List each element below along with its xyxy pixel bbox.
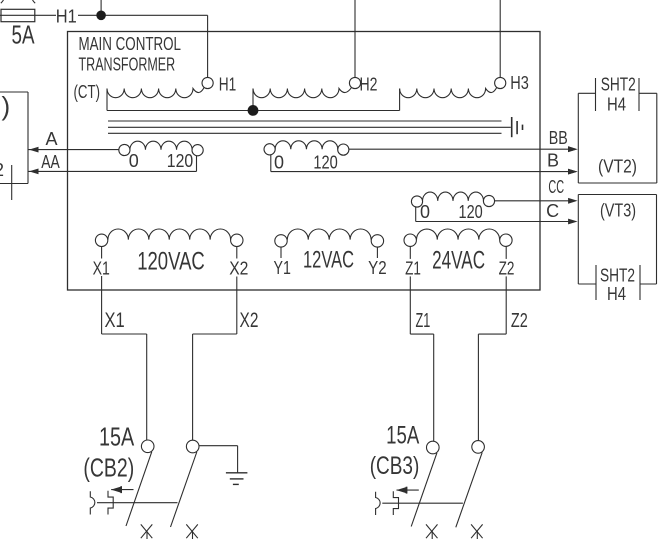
- svg-text:X1: X1: [93, 259, 110, 279]
- svg-text:H4: H4: [607, 284, 626, 304]
- svg-text:H1: H1: [56, 6, 77, 26]
- svg-text:(VT3): (VT3): [600, 201, 636, 221]
- svg-text:X1: X1: [105, 309, 125, 332]
- svg-text:0: 0: [420, 202, 430, 222]
- svg-text:120: 120: [167, 151, 193, 171]
- svg-text:120: 120: [459, 202, 483, 222]
- svg-text:B: B: [547, 150, 559, 170]
- svg-text:15A: 15A: [99, 422, 135, 452]
- svg-text:(CT): (CT): [74, 81, 101, 102]
- svg-text:0: 0: [129, 151, 139, 171]
- svg-text:0: 0: [274, 153, 284, 173]
- svg-text:Z1: Z1: [405, 259, 421, 279]
- svg-text:(CB3): (CB3): [370, 452, 420, 480]
- svg-text:Y2: Y2: [368, 258, 387, 278]
- svg-text:120VAC: 120VAC: [137, 248, 205, 276]
- svg-text:AA: AA: [41, 152, 60, 172]
- svg-text:5A: 5A: [12, 20, 35, 50]
- svg-text:CC: CC: [548, 177, 564, 197]
- svg-text:SHT2: SHT2: [600, 266, 635, 286]
- svg-text:TRANSFORMER: TRANSFORMER: [79, 54, 176, 75]
- svg-text:15A: 15A: [386, 421, 419, 449]
- svg-text:BB: BB: [549, 128, 568, 148]
- svg-text:C: C: [546, 201, 559, 221]
- svg-text:H1: H1: [219, 74, 237, 94]
- svg-text:SHT2: SHT2: [601, 74, 636, 94]
- svg-text:MAIN CONTROL: MAIN CONTROL: [79, 33, 182, 54]
- svg-text:Z1: Z1: [416, 310, 431, 332]
- svg-text:Z2: Z2: [511, 310, 528, 332]
- svg-text:24VAC: 24VAC: [432, 247, 485, 275]
- svg-text:Z2: Z2: [499, 259, 515, 279]
- svg-text:12VAC: 12VAC: [303, 247, 354, 274]
- svg-text:(CB2): (CB2): [83, 452, 134, 482]
- svg-text:120: 120: [313, 153, 337, 173]
- svg-text:X2: X2: [240, 309, 259, 332]
- svg-text:): ): [2, 91, 11, 121]
- svg-text:Y1: Y1: [274, 258, 291, 278]
- svg-text:2: 2: [0, 160, 4, 180]
- svg-text:X2: X2: [229, 259, 248, 279]
- svg-text:H2: H2: [360, 74, 378, 94]
- svg-text:A: A: [45, 129, 57, 149]
- svg-text:H4: H4: [607, 94, 626, 114]
- svg-text:H3: H3: [510, 73, 529, 93]
- svg-text:(VT2): (VT2): [598, 157, 637, 177]
